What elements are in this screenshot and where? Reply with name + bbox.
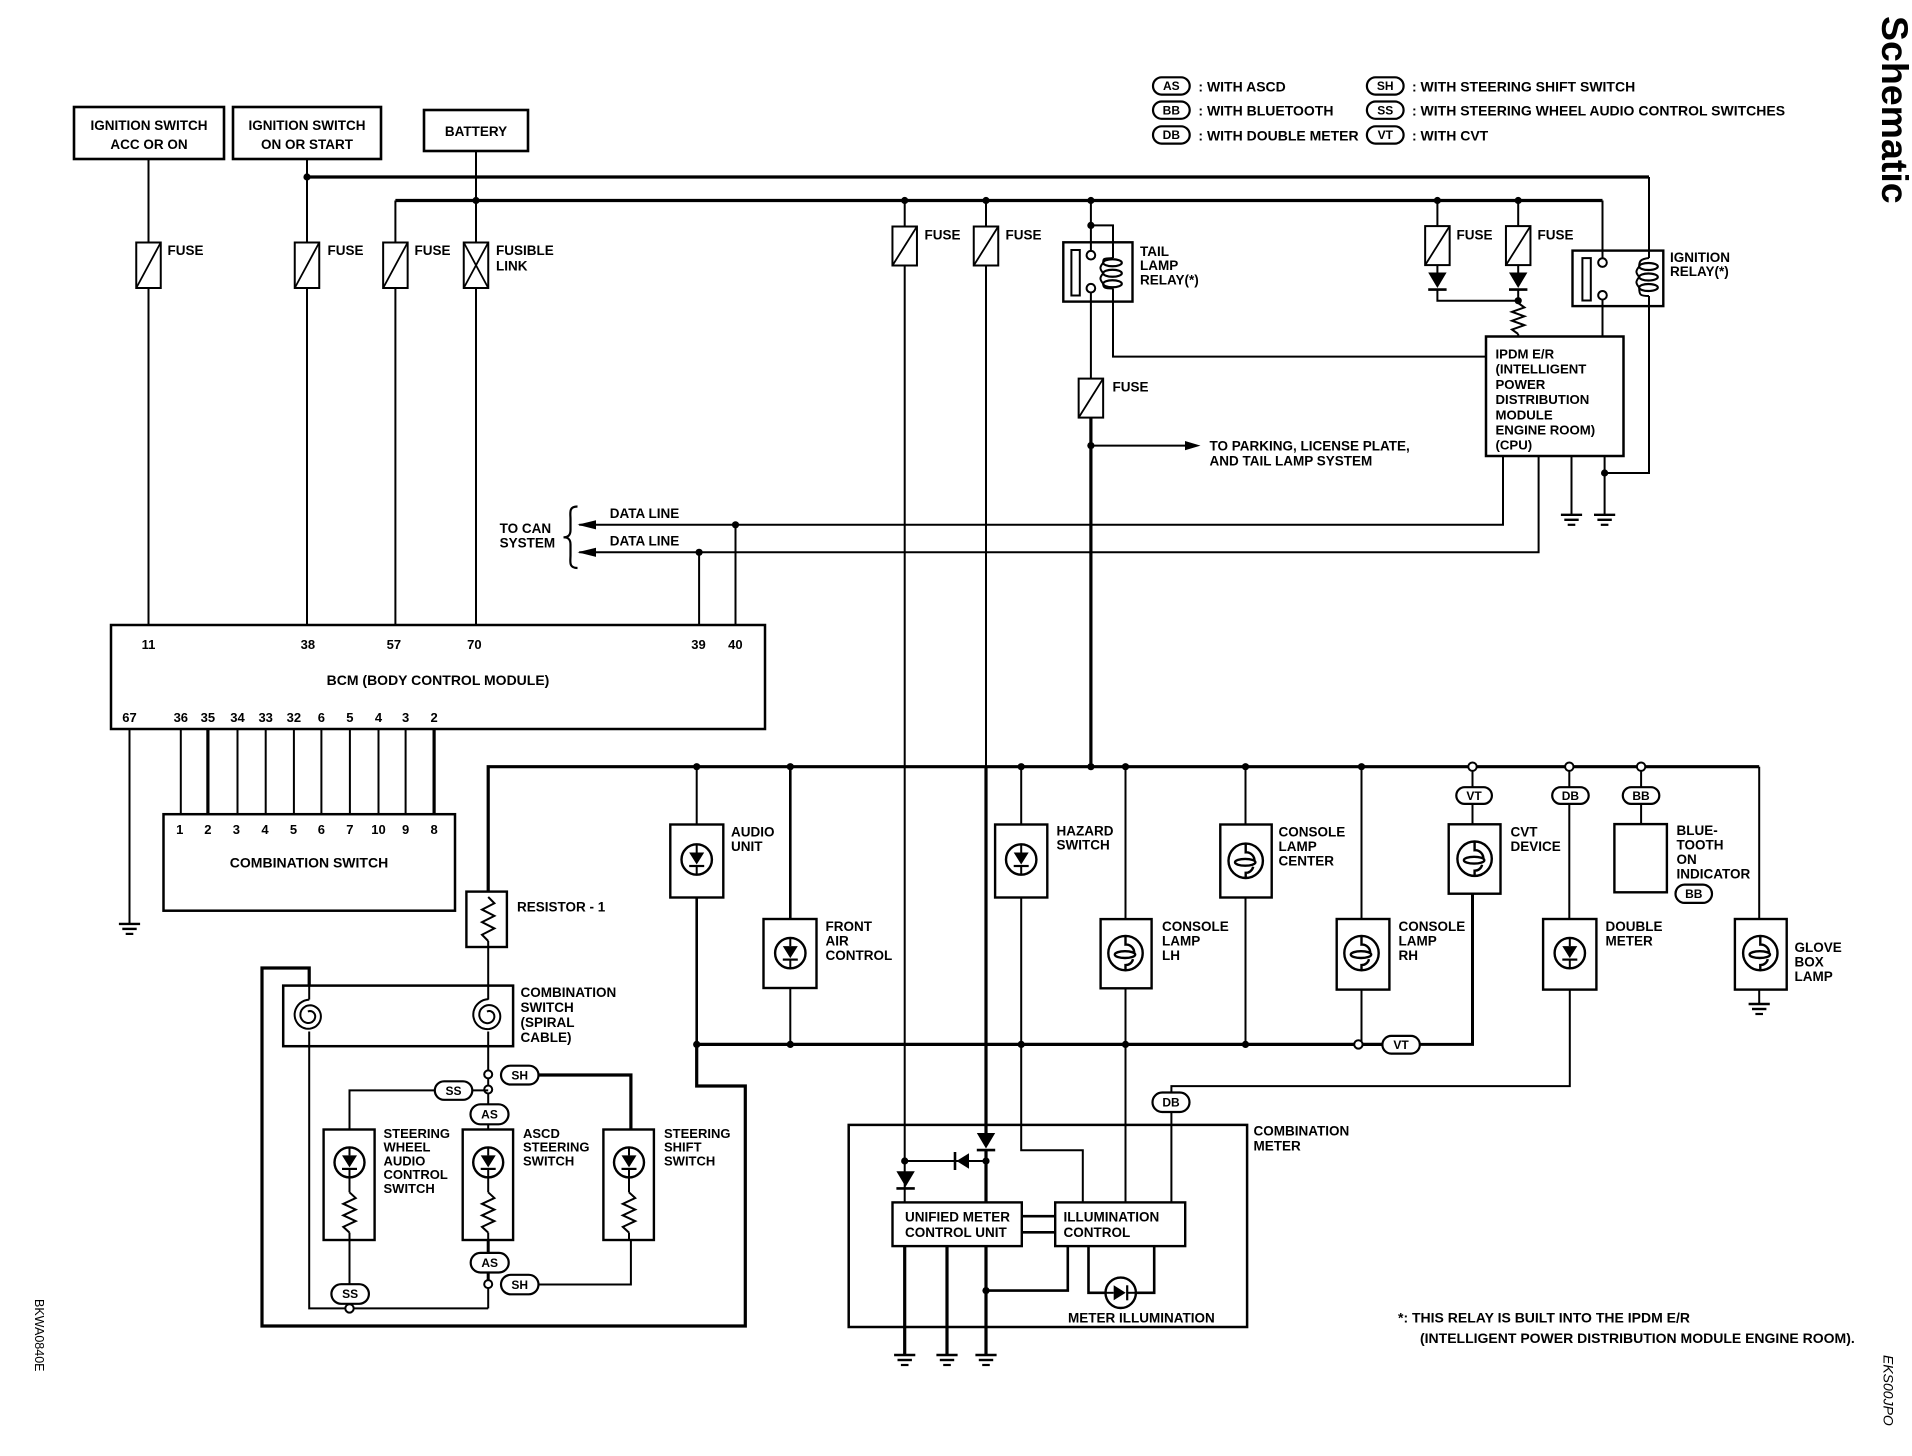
wire audio unit feed	[696, 767, 698, 825]
node double meter feed	[1565, 763, 1573, 771]
svg-text:RELAY(*): RELAY(*)	[1670, 264, 1729, 279]
svg-text:AS: AS	[1163, 79, 1180, 93]
relay U2 contact pin bottom	[1598, 291, 1607, 300]
module unified meter control unit	[893, 1202, 1022, 1246]
wire BCM to combination switch 9	[405, 729, 407, 815]
svg-text:(SPIRAL: (SPIRAL	[521, 1015, 575, 1030]
relay U1 contact bar	[1071, 250, 1079, 296]
box combination meter	[849, 1125, 1247, 1327]
svg-text:2: 2	[430, 710, 437, 725]
svg-text:FUSE: FUSE	[168, 243, 204, 258]
lamp double meter LED	[1555, 938, 1585, 968]
lamp meter illumination LED	[1106, 1278, 1136, 1308]
fuse F4	[892, 227, 917, 266]
svg-text:SHIFT: SHIFT	[664, 1140, 702, 1155]
oval VT return	[1382, 1036, 1419, 1054]
junction audio return	[693, 1041, 700, 1048]
wire BCM to combination switch 5	[293, 729, 295, 815]
box console lamp RH	[1337, 919, 1390, 990]
svg-text:TO CAN: TO CAN	[500, 521, 552, 536]
wire fuse F4 to unified meter control unit	[904, 266, 906, 1203]
box console lamp LH	[1101, 919, 1152, 988]
relay U1 contact pin bottom	[1087, 284, 1096, 293]
svg-text:COMBINATION SWITCH: COMBINATION SWITCH	[230, 855, 388, 871]
svg-text:BCM (BODY CONTROL MODULE): BCM (BODY CONTROL MODULE)	[327, 672, 550, 688]
svg-text:SS: SS	[342, 1287, 358, 1301]
junction console lamp RH feed	[1358, 763, 1365, 770]
svg-text:3: 3	[233, 822, 240, 837]
wire BCM to combination switch 10	[433, 729, 436, 815]
svg-text:ON OR START: ON OR START	[261, 137, 354, 152]
svg-text:*: THIS RELAY IS BUILT INTO TH: *: THIS RELAY IS BUILT INTO THE IPDM E/R	[1398, 1310, 1690, 1326]
svg-text:Schematic: Schematic	[1874, 16, 1912, 204]
relay U2 ignition relay box	[1573, 251, 1664, 307]
wire hazard return into meter	[1021, 1044, 1083, 1202]
junction audio unit feed	[693, 763, 700, 770]
fuse F1	[136, 243, 161, 289]
svg-text:AS: AS	[481, 1108, 498, 1122]
wire battery to fusible link	[475, 151, 477, 243]
box combination switch spiral cable	[283, 986, 513, 1047]
legend oval BB	[1153, 102, 1190, 119]
resistor steering wheel audio switch	[343, 1192, 355, 1232]
box front air control	[764, 919, 817, 988]
ground BCM pin 67	[119, 923, 140, 925]
lamp audio unit LED	[682, 844, 712, 874]
wire resistor to spiral cable	[487, 947, 489, 986]
wire BCM to combination switch 8	[378, 729, 380, 815]
svg-text:CONSOLE: CONSOLE	[1399, 919, 1466, 934]
svg-text:UNIFIED METER: UNIFIED METER	[905, 1210, 1010, 1225]
svg-text:HAZARD: HAZARD	[1057, 824, 1114, 839]
wire BCM to combination switch 7	[349, 729, 351, 815]
box battery	[424, 110, 528, 151]
brace to CAN system	[564, 507, 578, 569]
oval BB below indicator	[1676, 885, 1713, 903]
wire unified ground 1	[903, 1246, 906, 1355]
svg-text:BATTERY: BATTERY	[445, 124, 507, 139]
oval AS top	[471, 1104, 509, 1124]
junction L2 fuse F5	[982, 197, 989, 204]
svg-text:GLOVE: GLOVE	[1795, 940, 1842, 955]
wire BCM to combination switch 2	[206, 729, 209, 815]
oval SH top	[501, 1066, 539, 1085]
svg-text:BB: BB	[1632, 789, 1650, 803]
svg-text:LAMP: LAMP	[1399, 934, 1437, 949]
wire console lamp RH feed	[1361, 767, 1363, 919]
diode D3 meter	[977, 1133, 995, 1149]
lamp front air control LED	[775, 938, 805, 968]
label BKWA0840E	[32, 1299, 46, 1372]
wire IPDM ground pin 1	[1571, 456, 1573, 515]
svg-text:57: 57	[387, 637, 401, 652]
wire bus L1 to ignition relay coil	[1648, 177, 1650, 258]
junction L2 fuse F7	[1434, 197, 1441, 204]
wire diode D3 to unified meter	[984, 1151, 987, 1203]
svg-text:6: 6	[318, 710, 325, 725]
svg-text:SWITCH: SWITCH	[523, 1153, 574, 1168]
junction L2 tail lamp relay	[1087, 197, 1094, 204]
relay U2 contact bar	[1582, 258, 1590, 300]
svg-text:VT: VT	[1378, 128, 1394, 142]
svg-text:SYSTEM: SYSTEM	[500, 536, 556, 551]
junction data line 1 BCM pin 40	[732, 521, 739, 528]
svg-text:AUDIO: AUDIO	[384, 1153, 426, 1168]
relay U1 contact pin top	[1087, 251, 1096, 260]
svg-text:DB: DB	[1163, 128, 1181, 142]
wire BCM to combination switch 6	[320, 729, 322, 815]
svg-text:DATA LINE: DATA LINE	[610, 506, 680, 521]
svg-text:COMBINATION: COMBINATION	[521, 985, 617, 1000]
fuse F5	[974, 227, 999, 266]
relay U2 coil	[1639, 263, 1658, 270]
legend oval SS	[1367, 102, 1404, 119]
box audio unit	[670, 825, 723, 898]
junction diode bus left	[901, 1157, 908, 1164]
svg-text:SWITCH: SWITCH	[664, 1153, 715, 1168]
svg-text:: WITH STEERING SHIFT SWITCH: : WITH STEERING SHIFT SWITCH	[1412, 78, 1635, 94]
svg-text:: WITH ASCD: : WITH ASCD	[1198, 78, 1285, 94]
svg-text:AND TAIL LAMP SYSTEM: AND TAIL LAMP SYSTEM	[1210, 454, 1373, 469]
svg-text:AS: AS	[481, 1256, 498, 1270]
svg-text:STEERING: STEERING	[523, 1140, 589, 1155]
svg-text:CENTER: CENTER	[1279, 854, 1335, 869]
box bluetooth on indicator	[1614, 824, 1667, 892]
box combination switch	[164, 814, 456, 911]
svg-text:FUSE: FUSE	[1113, 380, 1149, 395]
wire console LH to return bus	[1125, 988, 1127, 1044]
wire BCM pin 67 to ground	[129, 729, 131, 924]
svg-text:9: 9	[402, 822, 409, 837]
wire IPDM to data line 1	[579, 456, 1503, 525]
svg-text:MODULE: MODULE	[1496, 407, 1553, 422]
fuse F8	[1506, 226, 1531, 265]
wire fuse F1 to BCM pin 11	[148, 288, 150, 625]
wire BCM to combination switch 4	[265, 729, 267, 815]
svg-text:40: 40	[728, 637, 742, 652]
diode D1	[1428, 273, 1446, 289]
wire diode bus	[905, 1160, 986, 1162]
svg-text:39: 39	[691, 637, 705, 652]
wire relay contact to fuse F6	[1090, 292, 1092, 378]
svg-text:CVT: CVT	[1511, 825, 1539, 840]
svg-text:CONTROL UNIT: CONTROL UNIT	[905, 1225, 1007, 1240]
box console lamp center	[1220, 825, 1271, 898]
svg-text:LAMP: LAMP	[1279, 839, 1317, 854]
wire L2 to fuse F4	[904, 201, 906, 227]
svg-text:(INTELLIGENT POWER DISTRIBUTIO: (INTELLIGENT POWER DISTRIBUTION MODULE E…	[1420, 1330, 1855, 1346]
wire fuse F8 to diode D2	[1517, 265, 1519, 273]
wire illumination to meter lamp left	[1089, 1246, 1106, 1293]
oval SH bottom	[501, 1275, 539, 1295]
wire SH to steering shift switch	[539, 1075, 631, 1130]
relay U1 tail lamp relay box	[1063, 242, 1132, 301]
svg-text:33: 33	[258, 710, 272, 725]
svg-text:BOX: BOX	[1795, 955, 1824, 970]
svg-text:LAMP: LAMP	[1162, 934, 1200, 949]
oval DB combination meter	[1153, 1093, 1190, 1113]
svg-text:(INTELLIGENT: (INTELLIGENT	[1496, 362, 1587, 377]
wire illumination loop spiral to audio unit	[262, 968, 745, 1326]
svg-text:FUSE: FUSE	[415, 243, 451, 258]
relay U2 contact pin top	[1598, 258, 1607, 267]
wire console lamp center feed	[1245, 767, 1247, 825]
svg-text:STEERING: STEERING	[384, 1126, 450, 1141]
wire audio unit to lamp return bus	[695, 898, 698, 1045]
wire CVT feed	[1472, 771, 1474, 824]
lamp steering shift LED	[614, 1147, 644, 1177]
box ignition switch ACC or ON	[74, 107, 224, 159]
junction console center return	[1242, 1041, 1249, 1048]
wire bus L1 ignition power	[307, 175, 1649, 178]
wire L2 to fuse F7	[1436, 201, 1438, 227]
legend oval AS	[1153, 77, 1190, 94]
svg-text:FUSE: FUSE	[1457, 228, 1493, 243]
svg-text:TAIL: TAIL	[1140, 244, 1169, 259]
wire IPDM to data line 2	[579, 456, 1538, 552]
svg-text:AIR: AIR	[826, 934, 850, 949]
junction node R diodes	[1515, 297, 1522, 304]
svg-text:DATA LINE: DATA LINE	[610, 534, 680, 549]
wire BCM to combination switch 3	[237, 729, 239, 815]
svg-text:SH: SH	[511, 1068, 528, 1082]
junction data line 2 BCM pin 39	[696, 549, 703, 556]
wire fuse F7 to diode D1	[1436, 265, 1438, 273]
svg-text:34: 34	[230, 710, 245, 725]
legend oval SH	[1367, 77, 1404, 94]
svg-text:: WITH BLUETOOTH: : WITH BLUETOOTH	[1198, 103, 1333, 119]
wire double meter to combination meter	[1171, 990, 1569, 1203]
wire SS tap to steering wheel audio switch	[350, 1090, 489, 1129]
module illumination control	[1055, 1202, 1185, 1246]
wire unified to illumination link 2	[1022, 1231, 1055, 1234]
diode D2	[1509, 273, 1527, 289]
svg-text:RELAY(*): RELAY(*)	[1140, 272, 1199, 287]
wire double meter feed	[1568, 771, 1570, 919]
lamp console RH bulb	[1344, 936, 1378, 970]
lamp console center bulb	[1229, 844, 1263, 878]
wire ASCD bottom to node C	[487, 1240, 490, 1284]
svg-text:11: 11	[142, 637, 156, 652]
oval SS top	[435, 1081, 473, 1100]
fuse F2	[295, 243, 320, 289]
svg-text:32: 32	[287, 710, 301, 725]
junction L2 fuse F4	[901, 197, 908, 204]
box steering wheel audio control switch	[324, 1130, 375, 1241]
fusible link	[464, 243, 489, 289]
wire L2 to fuse F3	[394, 201, 396, 243]
svg-text:CONSOLE: CONSOLE	[1162, 919, 1229, 934]
svg-text:(CPU): (CPU)	[1496, 438, 1533, 453]
junction console lamp LH feed	[1122, 763, 1129, 770]
wire IPDM ground pin 2	[1604, 456, 1606, 515]
box glove box lamp	[1735, 919, 1787, 990]
svg-text:LAMP: LAMP	[1795, 969, 1833, 984]
spiral cable right spiral	[473, 999, 500, 1029]
junction parking lamp branch	[1087, 442, 1094, 449]
lamp console LH bulb	[1108, 936, 1142, 970]
wire front air control to return bus	[789, 988, 791, 1044]
junction hazard switch feed	[1018, 763, 1025, 770]
svg-text:BLUE-: BLUE-	[1677, 823, 1718, 838]
wire data line 2 to BCM pin 39	[698, 552, 700, 625]
wire LED to resistor 3	[628, 1177, 630, 1192]
wire bus L2 to ignition relay contact	[1602, 201, 1604, 259]
node CVT feed	[1468, 763, 1476, 771]
svg-text:: WITH STEERING WHEEL AUDIO CO: : WITH STEERING WHEEL AUDIO CONTROL SWIT…	[1412, 103, 1785, 119]
wire meter lamp right to illumination	[1136, 1246, 1154, 1293]
wire hazard switch to return bus	[1020, 898, 1022, 1045]
svg-text:BKWA0840E: BKWA0840E	[32, 1299, 46, 1372]
svg-text:10: 10	[371, 822, 385, 837]
junction IPDM ground relay coil	[1601, 469, 1608, 476]
junction L2 fuse F8	[1515, 197, 1522, 204]
wire to parking lamp system with arrow	[1091, 445, 1186, 447]
wire unified ground 3	[984, 1246, 987, 1355]
svg-text:FUSE: FUSE	[925, 228, 961, 243]
wire unified ground 2	[945, 1246, 948, 1355]
wire fuse F5 to combination meter	[984, 767, 987, 1134]
svg-text:BB: BB	[1163, 103, 1181, 117]
ground unified 3	[975, 1354, 996, 1356]
svg-text:DOUBLE: DOUBLE	[1606, 919, 1663, 934]
wire ignition relay coil to ground net	[1605, 296, 1649, 473]
wire console lamp LH feed	[1125, 767, 1127, 919]
wire lamp bus L3 feed corner	[488, 767, 1759, 892]
wire unified to illumination link 1	[1022, 1215, 1055, 1218]
svg-text:LAMP: LAMP	[1140, 258, 1178, 273]
wire hazard switch feed	[1020, 767, 1022, 825]
wire bluetooth feed	[1640, 771, 1642, 824]
ground unified 2	[936, 1354, 957, 1356]
svg-text:POWER: POWER	[1496, 377, 1546, 392]
wire data line 1 to BCM pin 40	[735, 525, 737, 625]
svg-text:SH: SH	[1377, 79, 1394, 93]
wire diode D1 to node R	[1437, 290, 1518, 301]
oval AS bottom	[471, 1253, 509, 1273]
wire BCM to combination switch 1	[180, 729, 182, 815]
legend oval VT	[1367, 126, 1404, 143]
label EKS00JPO	[1881, 1355, 1897, 1426]
node C ASCD return	[484, 1280, 492, 1288]
svg-text:4: 4	[375, 710, 383, 725]
svg-text:CONTROL: CONTROL	[384, 1167, 448, 1182]
fuse F7	[1425, 226, 1450, 265]
svg-text:ACC OR ON: ACC OR ON	[110, 137, 187, 152]
svg-text:COMBINATION: COMBINATION	[1254, 1124, 1350, 1139]
wire bus L2 battery power	[395, 199, 1602, 202]
svg-text:FUSIBLE: FUSIBLE	[496, 243, 554, 258]
node console RH return	[1354, 1040, 1362, 1048]
svg-text:FUSE: FUSE	[1538, 228, 1574, 243]
svg-text:70: 70	[467, 637, 481, 652]
title Schematic (rotated)	[1874, 16, 1912, 204]
svg-text:LINK: LINK	[496, 259, 528, 274]
ground unified 1	[894, 1354, 915, 1356]
lamp steering wheel audio LED	[335, 1147, 365, 1177]
svg-text:RH: RH	[1399, 948, 1419, 963]
oval VT feed	[1456, 787, 1492, 804]
junction hazard return	[1018, 1041, 1025, 1048]
node bluetooth feed	[1637, 763, 1645, 771]
svg-text:SWITCH: SWITCH	[384, 1181, 435, 1196]
relay U1 coil	[1103, 259, 1122, 266]
wire console RH to return node	[1361, 990, 1363, 1045]
wire VT oval to CVT device	[1420, 894, 1473, 1045]
node A spiral output	[484, 1070, 492, 1078]
svg-text:SS: SS	[1377, 103, 1393, 117]
svg-text:CONTROL: CONTROL	[826, 948, 893, 963]
junction tail fuse bus	[1087, 763, 1094, 770]
wire ign ON to bus L1	[306, 159, 308, 243]
wire glove box lamp feed	[1758, 767, 1760, 919]
oval BB feed	[1623, 787, 1660, 804]
junction illumination ground tap	[982, 1287, 989, 1294]
junction battery bus L2	[472, 197, 479, 204]
fuse F6	[1079, 379, 1104, 418]
wire fuse F2 to BCM pin 38	[306, 288, 308, 625]
resistor R2 RESISTOR-1 box	[466, 892, 507, 947]
svg-text:38: 38	[301, 637, 315, 652]
svg-text:SH: SH	[511, 1278, 528, 1292]
resistor ASCD steering switch	[482, 1192, 494, 1232]
wire LED to resistor 1	[349, 1177, 351, 1192]
resistor R1 to IPDM	[1512, 303, 1524, 334]
wire ignition relay contact to IPDM top	[1602, 300, 1604, 337]
svg-text:AUDIO: AUDIO	[731, 825, 775, 840]
wire relay coil to IPDM	[1113, 289, 1486, 357]
svg-text:TOOTH: TOOTH	[1677, 838, 1724, 853]
svg-text:5: 5	[290, 822, 297, 837]
svg-text:3: 3	[402, 710, 409, 725]
wire fuse F5 down	[985, 266, 987, 767]
oval DB feed	[1552, 787, 1589, 804]
svg-text:VT: VT	[1393, 1038, 1409, 1052]
wire node C down	[487, 1284, 489, 1309]
svg-text:WHEEL: WHEEL	[384, 1140, 431, 1155]
junction console LH return	[1122, 1041, 1129, 1048]
svg-text:4: 4	[261, 822, 269, 837]
junction tail lamp relay branch	[1087, 222, 1094, 229]
module IPDM E/R box	[1486, 337, 1624, 457]
svg-text:CONTROL: CONTROL	[1064, 1225, 1131, 1240]
lamp glove box bulb	[1743, 936, 1777, 970]
svg-text:FUSE: FUSE	[328, 243, 364, 258]
svg-text:RESISTOR - 1: RESISTOR - 1	[517, 900, 606, 915]
wire ign ACC to fuse F1	[148, 159, 150, 243]
wire left spiral entry	[308, 986, 310, 1000]
wire LED to resistor 2	[487, 1177, 489, 1192]
svg-text:METER: METER	[1606, 934, 1654, 949]
svg-text:DEVICE: DEVICE	[1511, 839, 1561, 854]
svg-text:CABLE): CABLE)	[521, 1030, 572, 1045]
svg-text:DISTRIBUTION: DISTRIBUTION	[1496, 392, 1590, 407]
junction ign ON bus L1	[303, 173, 310, 180]
junction console lamp center feed	[1242, 763, 1249, 770]
svg-text:STEERING: STEERING	[664, 1126, 730, 1141]
junction front air control feed	[787, 763, 794, 770]
svg-text:IGNITION SWITCH: IGNITION SWITCH	[91, 118, 208, 133]
diode D4 meter horizontal	[957, 1153, 970, 1169]
wire console LH return into meter	[1125, 1044, 1127, 1202]
junction front air return	[787, 1041, 794, 1048]
node B SS tap	[484, 1086, 492, 1094]
lamp hazard switch LED	[1006, 844, 1036, 874]
svg-text:DB: DB	[1562, 789, 1580, 803]
svg-text:ASCD: ASCD	[523, 1126, 560, 1141]
box ignition switch ON or START	[233, 107, 381, 159]
wire fuse F3 to BCM pin 57	[394, 288, 396, 625]
